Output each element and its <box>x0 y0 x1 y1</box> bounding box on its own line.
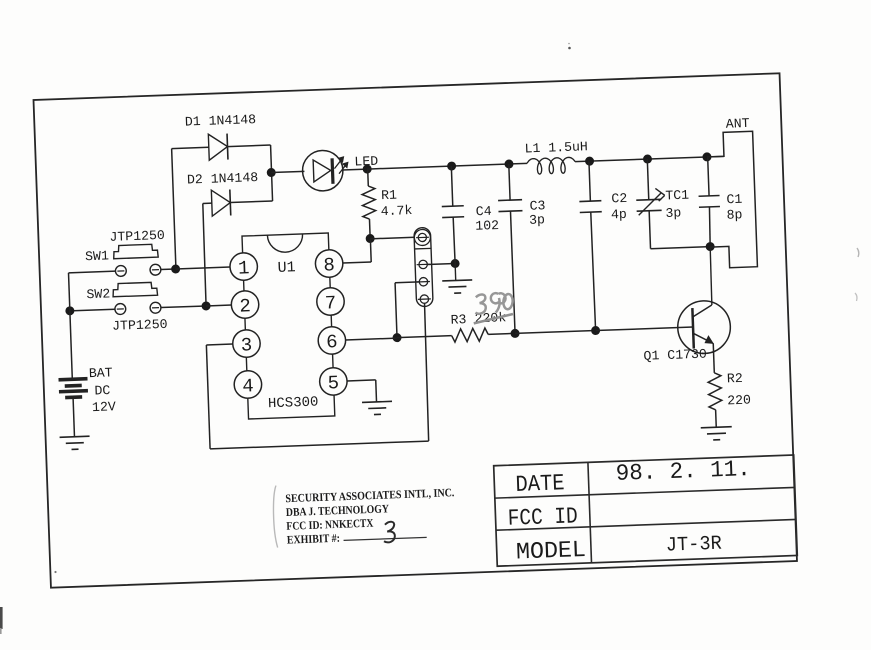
diode D1 <box>208 134 228 161</box>
pin 5 <box>319 367 347 395</box>
resistor R2 <box>708 373 722 410</box>
battery BAT bars <box>59 379 88 380</box>
transistor Q1 collector <box>692 305 712 317</box>
switch SW1 cap <box>113 244 158 259</box>
svg-text:U1: U1 <box>277 259 296 277</box>
svg-text:SW2: SW2 <box>86 286 110 302</box>
svg-text:JTP1250: JTP1250 <box>109 228 165 245</box>
connector J1 body <box>414 227 433 306</box>
pin 8 <box>315 249 343 277</box>
ground R2 <box>701 427 732 428</box>
pin 7 <box>316 287 344 315</box>
svg-text:102: 102 <box>475 218 499 234</box>
svg-text:SW1: SW1 <box>85 248 109 264</box>
wire D1 anode <box>172 147 209 148</box>
resistor R3 <box>451 328 488 342</box>
connector pin2 <box>419 260 428 269</box>
svg-text:1: 1 <box>238 257 250 279</box>
node R3-C3 junction <box>510 329 519 338</box>
pin 1 <box>230 252 258 280</box>
svg-text:ANT: ANT <box>726 116 750 132</box>
svg-text:98. 2. 11.: 98. 2. 11. <box>615 456 751 487</box>
connector pin3 <box>419 277 428 286</box>
node rail-C2 <box>585 156 594 165</box>
svg-text:8: 8 <box>323 254 335 276</box>
ground C4 node <box>454 264 457 281</box>
wire SW2 left <box>70 309 115 311</box>
stamp bracket <box>272 486 278 548</box>
svg-text:220: 220 <box>727 393 751 409</box>
transistor Q1 base bar <box>692 308 693 348</box>
pin 3 <box>232 329 260 357</box>
wire D-branch left vertical <box>172 149 176 268</box>
svg-text:C2: C2 <box>611 191 627 207</box>
wire C4 top <box>451 166 452 206</box>
node LED-R1 junction <box>363 164 372 173</box>
node pin6 junction <box>392 333 401 342</box>
wire D2 left vertical <box>202 203 206 305</box>
svg-text:R3: R3 <box>450 312 466 328</box>
svg-text:EXHIBIT #:: EXHIBIT #: <box>287 532 340 547</box>
wire SW1 to pin1 <box>176 267 230 269</box>
wire D-branch right vertical <box>271 145 273 201</box>
wire top rail right <box>575 156 724 161</box>
antenna ANT <box>706 131 757 268</box>
capacitor C3 <box>498 199 522 202</box>
wire junction to LED <box>271 171 304 172</box>
svg-text:3: 3 <box>240 334 252 356</box>
wire pin3 loop <box>206 343 232 346</box>
wire pin6 to node <box>345 338 397 340</box>
capacitor C2 <box>579 200 601 203</box>
svg-text:4: 4 <box>242 375 254 397</box>
pin 6 <box>318 326 346 354</box>
wire C2 top <box>589 161 590 201</box>
switch SW2 cap <box>113 282 158 297</box>
wire C4 bottom <box>453 217 455 263</box>
LED triangle <box>313 159 331 182</box>
wire D1 cathode <box>227 145 270 147</box>
wire connector pin4 down <box>424 303 430 441</box>
connector pin1 <box>414 229 431 246</box>
title block outline <box>494 455 798 566</box>
svg-text:4.7k: 4.7k <box>380 203 412 219</box>
stamp handwritten 3 <box>383 522 395 543</box>
switch SW1 contacts <box>115 265 126 276</box>
svg-text:C1: C1 <box>726 192 742 208</box>
wire SW1 left <box>69 271 116 273</box>
transistor Q1 circle <box>677 300 731 354</box>
node R1 bottom junction <box>366 234 375 243</box>
svg-text:HCS300: HCS300 <box>268 394 319 412</box>
wire node to R3 <box>397 336 452 338</box>
svg-text:DC: DC <box>94 383 110 399</box>
node rail-C4 <box>447 161 456 170</box>
LED D3 circle <box>302 150 344 192</box>
wire SW2 to pin2 <box>206 304 231 307</box>
wire D2 cathode <box>230 201 272 203</box>
node D1-D2 junction <box>267 168 276 177</box>
svg-text:3p: 3p <box>529 212 545 228</box>
node SW2-BAT junction <box>65 306 74 315</box>
wire connector pin2 to C4 node <box>427 263 455 266</box>
wire TC1 top <box>647 159 648 199</box>
node C4 bottom junction <box>450 259 459 268</box>
wire top rail left <box>367 163 527 169</box>
wire C2 bottom long <box>591 212 596 330</box>
scan speck near bottom-left corner <box>54 571 56 573</box>
switch SW2 contacts <box>115 303 126 314</box>
wire D2 anode <box>203 202 212 204</box>
svg-text:7: 7 <box>324 292 336 314</box>
wire C1 top <box>708 157 709 196</box>
svg-text:8p: 8p <box>726 207 742 223</box>
scan speck top <box>568 47 571 50</box>
wire C3 bottom long <box>510 211 515 333</box>
svg-text:3p: 3p <box>665 205 681 221</box>
node SW1-pin1 junction <box>171 264 180 273</box>
svg-text:D1 1N4148: D1 1N4148 <box>185 112 257 130</box>
LED arrows <box>334 159 343 169</box>
svg-text:R1: R1 <box>381 188 397 204</box>
svg-text:L1 1.5uH: L1 1.5uH <box>524 139 588 156</box>
svg-text:4p: 4p <box>611 207 627 223</box>
svg-text:2: 2 <box>239 295 251 317</box>
svg-text:Q1 C1730: Q1 C1730 <box>643 347 707 364</box>
wire C3 node to C2 node <box>515 331 596 334</box>
node C2 bottom junction <box>591 326 600 335</box>
inductor L1 <box>527 157 576 174</box>
IC U1 body <box>242 233 335 419</box>
svg-text:MODEL: MODEL <box>516 537 587 566</box>
wire R1 top <box>367 169 370 186</box>
pencil strikethrough 220k <box>473 314 513 323</box>
pencil handwritten 390 <box>475 294 486 314</box>
svg-text:6: 6 <box>326 331 338 353</box>
diode D2 <box>211 190 230 217</box>
wire SW1 right <box>161 268 176 271</box>
wire C1 bottom <box>709 207 711 247</box>
wire SW2 right <box>161 306 206 308</box>
wire R2 bottom <box>715 410 718 427</box>
transistor Q1 emitter <box>693 333 713 344</box>
LED cathode bar <box>330 158 334 183</box>
node rail-TC1 <box>643 154 652 163</box>
node C1 bottom junction <box>706 242 715 251</box>
scan artifact left edge <box>0 607 3 629</box>
connector pin4 <box>420 295 429 304</box>
wire battery to ground <box>73 397 74 436</box>
wire R3 to C3 node <box>488 332 515 335</box>
scan artifact right edge marks <box>857 248 859 257</box>
wire R1 node to connector <box>370 237 415 239</box>
resistor R1 <box>362 186 376 219</box>
svg-text:BAT: BAT <box>89 365 113 381</box>
ground pin5 <box>362 401 392 402</box>
wire C2 node to Q1 base <box>596 327 693 330</box>
svg-text:12V: 12V <box>92 399 116 415</box>
svg-text:FCC ID: FCC ID <box>507 503 578 531</box>
svg-text:D2 1N4148: D2 1N4148 <box>187 170 259 188</box>
svg-text:JT-3R: JT-3R <box>665 533 722 558</box>
wire SW left vertical <box>69 273 73 379</box>
wire connector pin3 left-down <box>395 281 419 284</box>
svg-text:R2: R2 <box>727 371 743 387</box>
svg-text:DATE: DATE <box>515 470 565 498</box>
wire LED to rail <box>342 168 367 171</box>
svg-text:JTP1250: JTP1250 <box>112 317 168 334</box>
wire R1 bottom <box>368 219 371 238</box>
IC U1 notch <box>267 234 303 253</box>
svg-text:C4: C4 <box>476 204 492 220</box>
wire pin8 to R1 node <box>343 262 371 263</box>
node rail-C3 <box>504 159 513 168</box>
wire TC1 bottom <box>649 211 650 249</box>
node SW2-pin2 junction <box>201 301 210 310</box>
svg-text:TC1: TC1 <box>665 188 689 204</box>
pin 2 <box>231 290 259 318</box>
stamp underline <box>344 537 427 540</box>
capacitor C4 <box>442 205 464 208</box>
wire C3 top <box>509 164 510 200</box>
svg-text:5: 5 <box>327 372 339 394</box>
pin 4 <box>234 370 262 398</box>
capacitor C1 <box>699 195 720 198</box>
ground battery <box>60 436 90 437</box>
wire pin5 to ground <box>347 380 376 381</box>
node rail-C1 <box>702 152 711 161</box>
border frame <box>33 73 796 587</box>
wire Q1 emitter down <box>713 343 714 372</box>
trimmer TC1 <box>636 198 661 201</box>
